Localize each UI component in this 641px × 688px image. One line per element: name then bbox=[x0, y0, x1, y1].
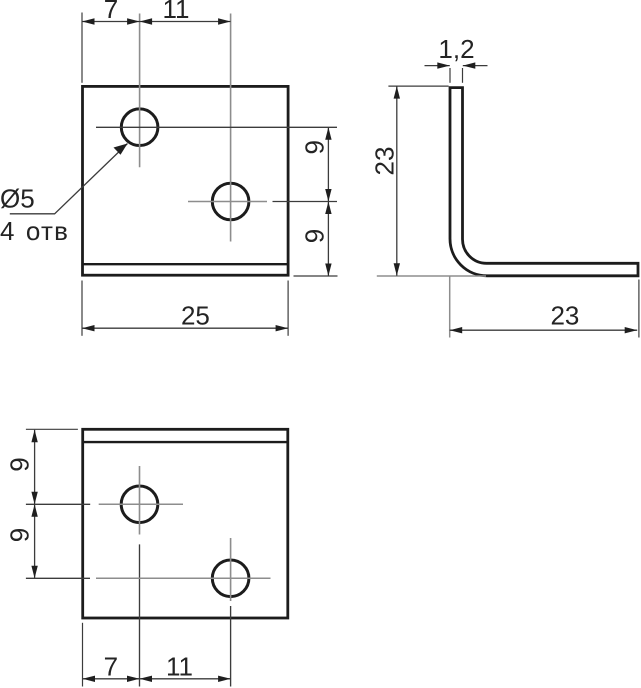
extension 25 right bbox=[287, 281, 289, 336]
dimension line 9/9 right bbox=[327, 127, 329, 276]
svg-text:9: 9 bbox=[300, 140, 330, 154]
arrow 23B left bbox=[450, 327, 463, 333]
svg-text:7: 7 bbox=[104, 0, 118, 24]
extension 1,2 left bbox=[449, 68, 451, 83]
arrow 11b right bbox=[218, 676, 231, 682]
svg-text:4 отв: 4 отв bbox=[0, 216, 69, 246]
svg-text:11: 11 bbox=[166, 651, 193, 681]
dimension line 7/11 bottom bbox=[83, 678, 231, 680]
centerline H2 vertical bbox=[230, 14, 232, 242]
dimension line 23 left bbox=[396, 86, 398, 276]
hole H4 bottom view bbox=[212, 560, 249, 597]
arrow 25 right bbox=[276, 325, 289, 331]
extension H2 horizontal to right dim bbox=[273, 201, 338, 203]
arrow 11 left bbox=[140, 18, 153, 24]
arrow 7b left bbox=[83, 676, 96, 682]
arrow 9c down bbox=[31, 492, 37, 505]
arrow 7 right bbox=[127, 18, 140, 24]
hole H1 front view bbox=[121, 109, 158, 146]
extension H3 vertical to bottom dim bbox=[139, 544, 141, 686]
svg-text:Ø5: Ø5 bbox=[0, 184, 35, 214]
centerline H1 vertical bbox=[139, 14, 141, 168]
extension 23 bottom right bbox=[638, 280, 640, 338]
svg-text:23: 23 bbox=[550, 301, 579, 331]
arrow 9a down bbox=[325, 189, 331, 202]
hole H2 front view bbox=[212, 183, 249, 220]
svg-text:23: 23 bbox=[369, 147, 399, 176]
svg-text:9: 9 bbox=[300, 229, 330, 243]
extension left edge top bbox=[81, 13, 83, 83]
extension top edge left bbox=[26, 428, 78, 430]
plate outline front view bbox=[83, 86, 289, 275]
dimension line 1,2 right segment bbox=[463, 65, 488, 67]
svg-text:9: 9 bbox=[5, 457, 35, 471]
extension H4 vertical to bottom dim bbox=[230, 606, 232, 687]
extension 23 left top bbox=[388, 85, 448, 87]
svg-text:11: 11 bbox=[163, 0, 190, 24]
dimension line 1,2 left segment bbox=[425, 65, 450, 67]
arrow 11b left bbox=[140, 676, 153, 682]
centerline H4 vertical (gray) bbox=[230, 538, 232, 601]
arrow 9a up bbox=[325, 127, 331, 140]
extension bottom-left corner down bbox=[82, 623, 84, 687]
leader line hole label bbox=[10, 144, 128, 214]
svg-text:1,2: 1,2 bbox=[438, 34, 474, 64]
arrow 1,2 right (points left) bbox=[463, 62, 476, 68]
arrow 23B right bbox=[625, 327, 638, 333]
arrow 1,2 left (points right) bbox=[437, 62, 450, 68]
arrow 9c up bbox=[31, 430, 37, 443]
arrow 9d down bbox=[31, 566, 37, 579]
extension H4 horizontal dark bbox=[26, 577, 90, 579]
dimension line 7/11 top bbox=[82, 21, 231, 23]
extension H3 horizontal dark bbox=[26, 503, 90, 505]
extension bottom-right edge bbox=[294, 275, 338, 277]
arrow 9d up bbox=[31, 504, 37, 517]
arrow 7 left bbox=[82, 18, 95, 24]
extension 1,2 right bbox=[462, 68, 464, 83]
centerline H3 horizontal gray bbox=[99, 503, 183, 505]
centerline H3 vertical (gray) bbox=[139, 466, 141, 535]
extension 23 bottom left (wall line down) bbox=[449, 276, 451, 338]
arrow 23L down bbox=[394, 263, 400, 276]
extension 25 left bbox=[81, 281, 83, 336]
arrow 25 left bbox=[82, 325, 95, 331]
dimension line 23 bottom bbox=[450, 329, 638, 331]
arrow 7b right bbox=[127, 676, 140, 682]
extension 23 left bottom (outer bottom line) bbox=[377, 275, 486, 277]
L-profile outline bbox=[450, 88, 638, 276]
bend tangent line bottom view bbox=[83, 441, 288, 443]
arrow 23L up bbox=[394, 86, 400, 99]
hole H3 bottom view bbox=[121, 486, 158, 523]
arrow 9b down bbox=[325, 264, 331, 277]
leader arrow bbox=[114, 144, 128, 155]
centerline H1 horizontal / extension to right dim bbox=[96, 126, 337, 128]
dimension line 25 bbox=[82, 327, 288, 329]
centerline H2 horizontal bbox=[188, 201, 267, 203]
arrow 9b up bbox=[325, 202, 331, 215]
svg-text:9: 9 bbox=[5, 528, 35, 542]
bend tangent line front view bbox=[83, 263, 289, 265]
arrow 11 right bbox=[218, 18, 231, 24]
dimension line 9/9 left bbox=[34, 430, 36, 579]
svg-text:25: 25 bbox=[181, 300, 210, 330]
plate outline bottom view bbox=[83, 429, 288, 618]
svg-text:7: 7 bbox=[104, 651, 118, 681]
centerline H4 horizontal gray bbox=[96, 577, 271, 579]
